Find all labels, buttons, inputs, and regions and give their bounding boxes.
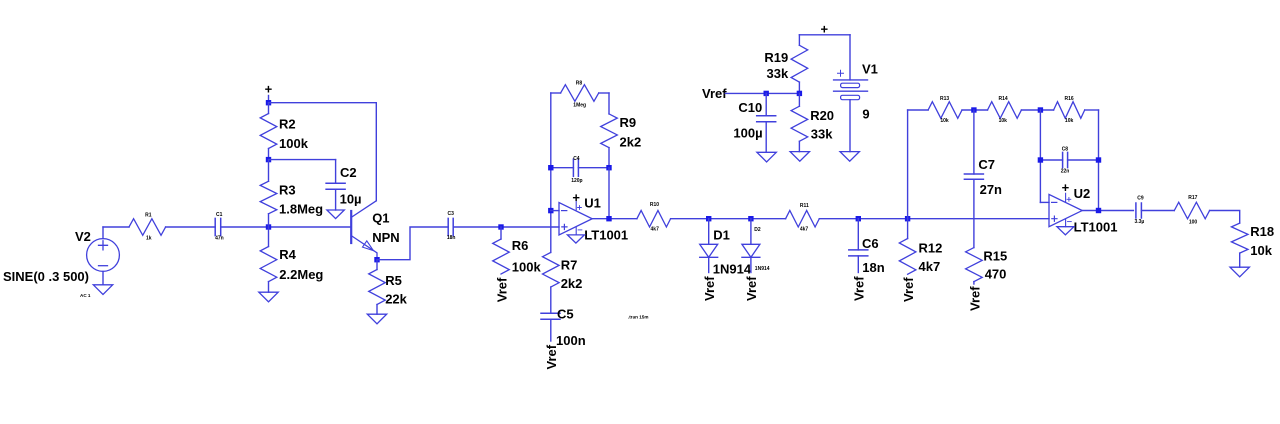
capacitor C4 [551,156,609,184]
resistor R11 [786,203,820,233]
svg-text:Vref: Vref [744,276,759,301]
ground (C10) [757,152,776,162]
svg-text:Vref: Vref [852,276,867,301]
node (U1 output) [606,216,611,221]
svg-text:9: 9 [862,107,869,122]
ground (U1 V-) [567,235,584,243]
resistor R7 [543,252,583,313]
ground (R20) [790,152,809,162]
svg-text:C3: C3 [447,211,454,217]
wire C3 to U1 + input [453,226,559,228]
node (R6 top) [498,224,503,229]
battery V1 [834,35,878,152]
wire top rail segments [908,109,929,111]
resistor R13 [928,96,962,124]
svg-text:27n: 27n [980,182,1002,197]
ground (R18) [1230,267,1249,277]
svg-text:C9: C9 [1137,195,1144,201]
transistor Q1 [351,201,399,260]
node (R14/R16) [1038,107,1043,112]
wire C1 to Q1 base [221,226,351,228]
capacitor C8 [1040,147,1098,175]
svg-text:D2: D2 [754,227,761,233]
node (emitter) [374,257,379,262]
svg-text:10k: 10k [940,118,949,124]
wire top rail to Q1 collector [269,102,377,104]
node (C8 right) [1096,157,1101,162]
wire R9 node down to output [608,168,610,219]
wire R10 to R11 [671,218,786,220]
svg-text:1N914: 1N914 [755,266,770,272]
svg-text:R15: R15 [983,249,1007,264]
wire U2 output [1082,210,1133,212]
svg-text:LT1001: LT1001 [1074,219,1118,234]
resistor R14 [988,96,1022,124]
svg-text:Vref: Vref [494,277,509,302]
wire R1 to C1 [166,226,216,228]
svg-text:1Meg: 1Meg [573,103,586,109]
svg-text:100n: 100n [556,333,586,348]
capacitor C6 [849,219,885,275]
node (C6) [856,216,861,221]
svg-text:C7: C7 [978,157,995,172]
svg-text:R12: R12 [919,241,943,256]
node (D2) [748,216,753,221]
svg-text:R17: R17 [1188,195,1197,201]
svg-text:U1: U1 [584,195,601,210]
ground (V1) [840,152,859,162]
svg-text:V1: V1 [862,61,878,76]
resistor R2 [260,103,308,160]
resistor R16 [1054,96,1085,124]
svg-text:470: 470 [985,267,1007,282]
svg-text:10k: 10k [999,118,1008,124]
svg-text:3.3µ: 3.3µ [1134,219,1144,225]
wire R14 to R16 [1021,109,1053,111]
node (U2 output) [1096,208,1101,213]
svg-text:100k: 100k [279,136,309,151]
svg-text:R11: R11 [800,203,809,209]
ground (R4) [259,292,278,302]
svg-text:+: + [265,82,273,97]
svg-text:C5: C5 [557,307,574,322]
resistor R18 [1231,223,1274,267]
svg-text:C6: C6 [862,236,879,251]
svg-text:10k: 10k [1065,118,1074,124]
svg-text:Q1: Q1 [372,210,389,225]
capacitor C3 [447,211,456,241]
svg-text:R13: R13 [940,96,949,102]
svg-text:R4: R4 [279,247,296,262]
svg-text:2k2: 2k2 [561,276,583,291]
wire minus riser [1039,110,1041,202]
svg-text:33k: 33k [811,127,833,142]
capacitor C5 [541,307,586,348]
diode D2 [742,219,770,273]
svg-text:R10: R10 [650,202,659,208]
svg-text:R19: R19 [764,50,788,65]
wire U1 output [592,218,637,220]
wire R16 corner down [1085,109,1099,111]
node (R2/R3/C2 junction) [266,157,271,162]
capacitor C10 [733,93,775,152]
wire R11 to U2 [819,218,1049,220]
node (C7 tap) [971,107,976,112]
wire rail riser [907,110,909,219]
resistor R15 [966,248,1008,284]
svg-text:R14: R14 [999,96,1008,102]
svg-text:4k7: 4k7 [651,226,660,232]
resistor R6 [493,227,542,275]
node (C4 left) [548,165,553,170]
svg-text:18n: 18n [447,235,456,241]
svg-text:R18: R18 [1250,224,1274,239]
svg-text:120p: 120p [571,178,582,184]
svg-text:C4: C4 [573,156,580,162]
svg-text:47n: 47n [215,235,224,241]
svg-text:+: + [821,21,829,36]
svg-text:1N914: 1N914 [713,261,752,276]
svg-text:2k2: 2k2 [620,134,642,149]
wire Vref to R20 [725,92,799,94]
svg-text:2.2Meg: 2.2Meg [279,267,323,282]
node (R12 / rail riser) [905,216,910,221]
svg-text:R1: R1 [145,212,152,218]
svg-text:V2: V2 [75,229,91,244]
resistor R4 [260,227,323,292]
svg-text:R5: R5 [385,273,402,288]
svg-text:LT1001: LT1001 [584,227,628,242]
svg-text:R2: R2 [279,117,296,132]
wire minus node to U1 [551,210,559,212]
svg-text:SINE(0 .3 500): SINE(0 .3 500) [3,269,89,284]
svg-text:33k: 33k [766,66,788,81]
node (R2 top / rail) [266,100,271,105]
resistor R20 [791,93,834,151]
svg-text:Vref: Vref [901,277,916,302]
resistor R9 [601,93,642,168]
resistor R17 [1174,195,1209,225]
wire emitter to C3 [377,227,448,260]
svg-text:C10: C10 [738,100,762,115]
svg-text:C1: C1 [216,212,223,218]
node (C8 left) [1038,157,1043,162]
svg-text:R9: R9 [620,115,637,130]
node (R19/R20) [797,91,802,96]
svg-text:Vref: Vref [702,86,727,101]
svg-text:Vref: Vref [544,344,559,369]
svg-text:R3: R3 [279,183,296,198]
resistor R8 [551,80,609,108]
ground (R5) [367,314,386,324]
wire V2 to R1 [103,226,129,228]
svg-text:R7: R7 [561,257,578,272]
svg-text:4k7: 4k7 [800,227,809,233]
wire C9 to R17 [1141,210,1174,212]
svg-text:22n: 22n [1061,168,1070,174]
svg-text:C8: C8 [1062,147,1069,153]
svg-text:10µ: 10µ [340,192,362,207]
svg-text:R6: R6 [512,238,529,253]
svg-text:1.8Meg: 1.8Meg [279,202,323,217]
diode D1 [700,219,752,277]
resistor R10 [637,202,671,233]
svg-text:1k: 1k [146,235,152,241]
svg-text:+: + [1062,180,1070,195]
ground (C2) [327,210,344,219]
svg-text:.tran 15m: .tran 15m [628,315,648,320]
capacitor C9 [1134,195,1144,225]
wire R13 to R14 [962,109,988,111]
capacitor C1 [215,212,224,241]
resistor R5 [369,260,408,315]
resistor R19 [764,35,807,94]
svg-text:R8: R8 [576,80,583,86]
node (C1/R3/R4 junction) [266,224,271,229]
voltage source V2 [3,227,119,298]
op-amp U1 [559,190,628,243]
svg-text:100k: 100k [512,260,542,275]
ground (V2) [93,285,112,295]
node (C10 tap) [764,91,769,96]
svg-text:C2: C2 [340,165,357,180]
node (D1) [706,216,711,221]
resistor R1 [129,212,166,241]
wire top rail R19 to V1 [799,34,850,36]
svg-text:Vref: Vref [702,276,717,301]
svg-text:100: 100 [1189,219,1198,225]
svg-text:4k7: 4k7 [919,259,941,274]
node (C4 right) [606,165,611,170]
svg-text:10k: 10k [1250,243,1272,258]
wire node stub up [268,96,270,103]
wire R17 to R18 [1210,211,1240,224]
svg-text:Vref: Vref [967,286,982,311]
svg-text:NPN: NPN [372,230,399,245]
capacitor C7 [964,110,1002,248]
capacitor C2 [269,160,362,210]
svg-text:AC 1: AC 1 [80,293,91,298]
svg-text:D1: D1 [713,228,730,243]
svg-text:U2: U2 [1074,186,1091,201]
svg-text:R16: R16 [1065,96,1074,102]
svg-text:+: + [572,190,580,205]
resistor R3 [260,160,323,227]
resistor R12 [899,219,942,275]
svg-text:100µ: 100µ [733,126,762,141]
node (U1 minus input) [548,208,553,213]
svg-text:R20: R20 [810,108,834,123]
ground (U2 V-) [1057,227,1074,235]
op-amp U2 [1049,180,1117,234]
wire left vertical (C4/minus/R7) [550,93,552,252]
svg-text:22k: 22k [385,291,407,306]
svg-text:18n: 18n [862,260,884,275]
